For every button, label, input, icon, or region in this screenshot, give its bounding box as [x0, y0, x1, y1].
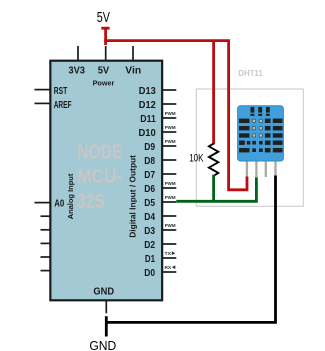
svg-text:10K: 10K	[189, 153, 204, 165]
svg-text:D4: D4	[144, 211, 155, 223]
svg-text:PWM: PWM	[165, 125, 176, 131]
svg-text:RX: RX	[165, 265, 172, 271]
svg-text:D7: D7	[144, 169, 155, 181]
svg-text:D10: D10	[139, 127, 156, 139]
svg-text:D0: D0	[144, 267, 155, 279]
svg-text:D13: D13	[139, 85, 156, 97]
svg-text:D6: D6	[144, 183, 155, 195]
svg-text:D3: D3	[144, 225, 155, 237]
svg-text:D8: D8	[144, 155, 155, 167]
svg-text:DHT11: DHT11	[238, 69, 263, 78]
svg-text:D12: D12	[139, 99, 156, 111]
svg-text:D11: D11	[140, 113, 156, 125]
svg-text:RST: RST	[54, 85, 68, 97]
svg-text:PWM: PWM	[165, 111, 176, 117]
svg-text:D1: D1	[145, 253, 155, 265]
svg-text:GND: GND	[93, 285, 114, 297]
svg-text:Vin: Vin	[125, 65, 141, 77]
svg-text:PWM: PWM	[165, 223, 176, 229]
svg-text:AREF: AREF	[54, 99, 72, 111]
svg-text:3V3: 3V3	[68, 65, 85, 77]
svg-text:5V: 5V	[97, 9, 110, 26]
svg-text:Analog Input: Analog Input	[66, 173, 75, 219]
svg-text:MCU-: MCU-	[77, 166, 122, 188]
svg-text:5V: 5V	[98, 65, 110, 77]
svg-text:D2: D2	[144, 239, 155, 251]
svg-text:PWM: PWM	[165, 181, 176, 187]
svg-text:D9: D9	[144, 141, 155, 153]
svg-text:A0: A0	[54, 198, 64, 210]
svg-text:32S: 32S	[77, 191, 105, 213]
svg-text:Power: Power	[93, 79, 115, 88]
svg-text:PWM: PWM	[165, 195, 176, 201]
svg-text:PWM: PWM	[165, 139, 176, 145]
svg-text:NODE: NODE	[77, 142, 122, 164]
svg-text:TX: TX	[165, 251, 172, 257]
svg-text:Digital Input / Output: Digital Input / Output	[129, 155, 138, 238]
svg-text:D5: D5	[144, 197, 155, 209]
svg-text:GND: GND	[89, 338, 116, 351]
